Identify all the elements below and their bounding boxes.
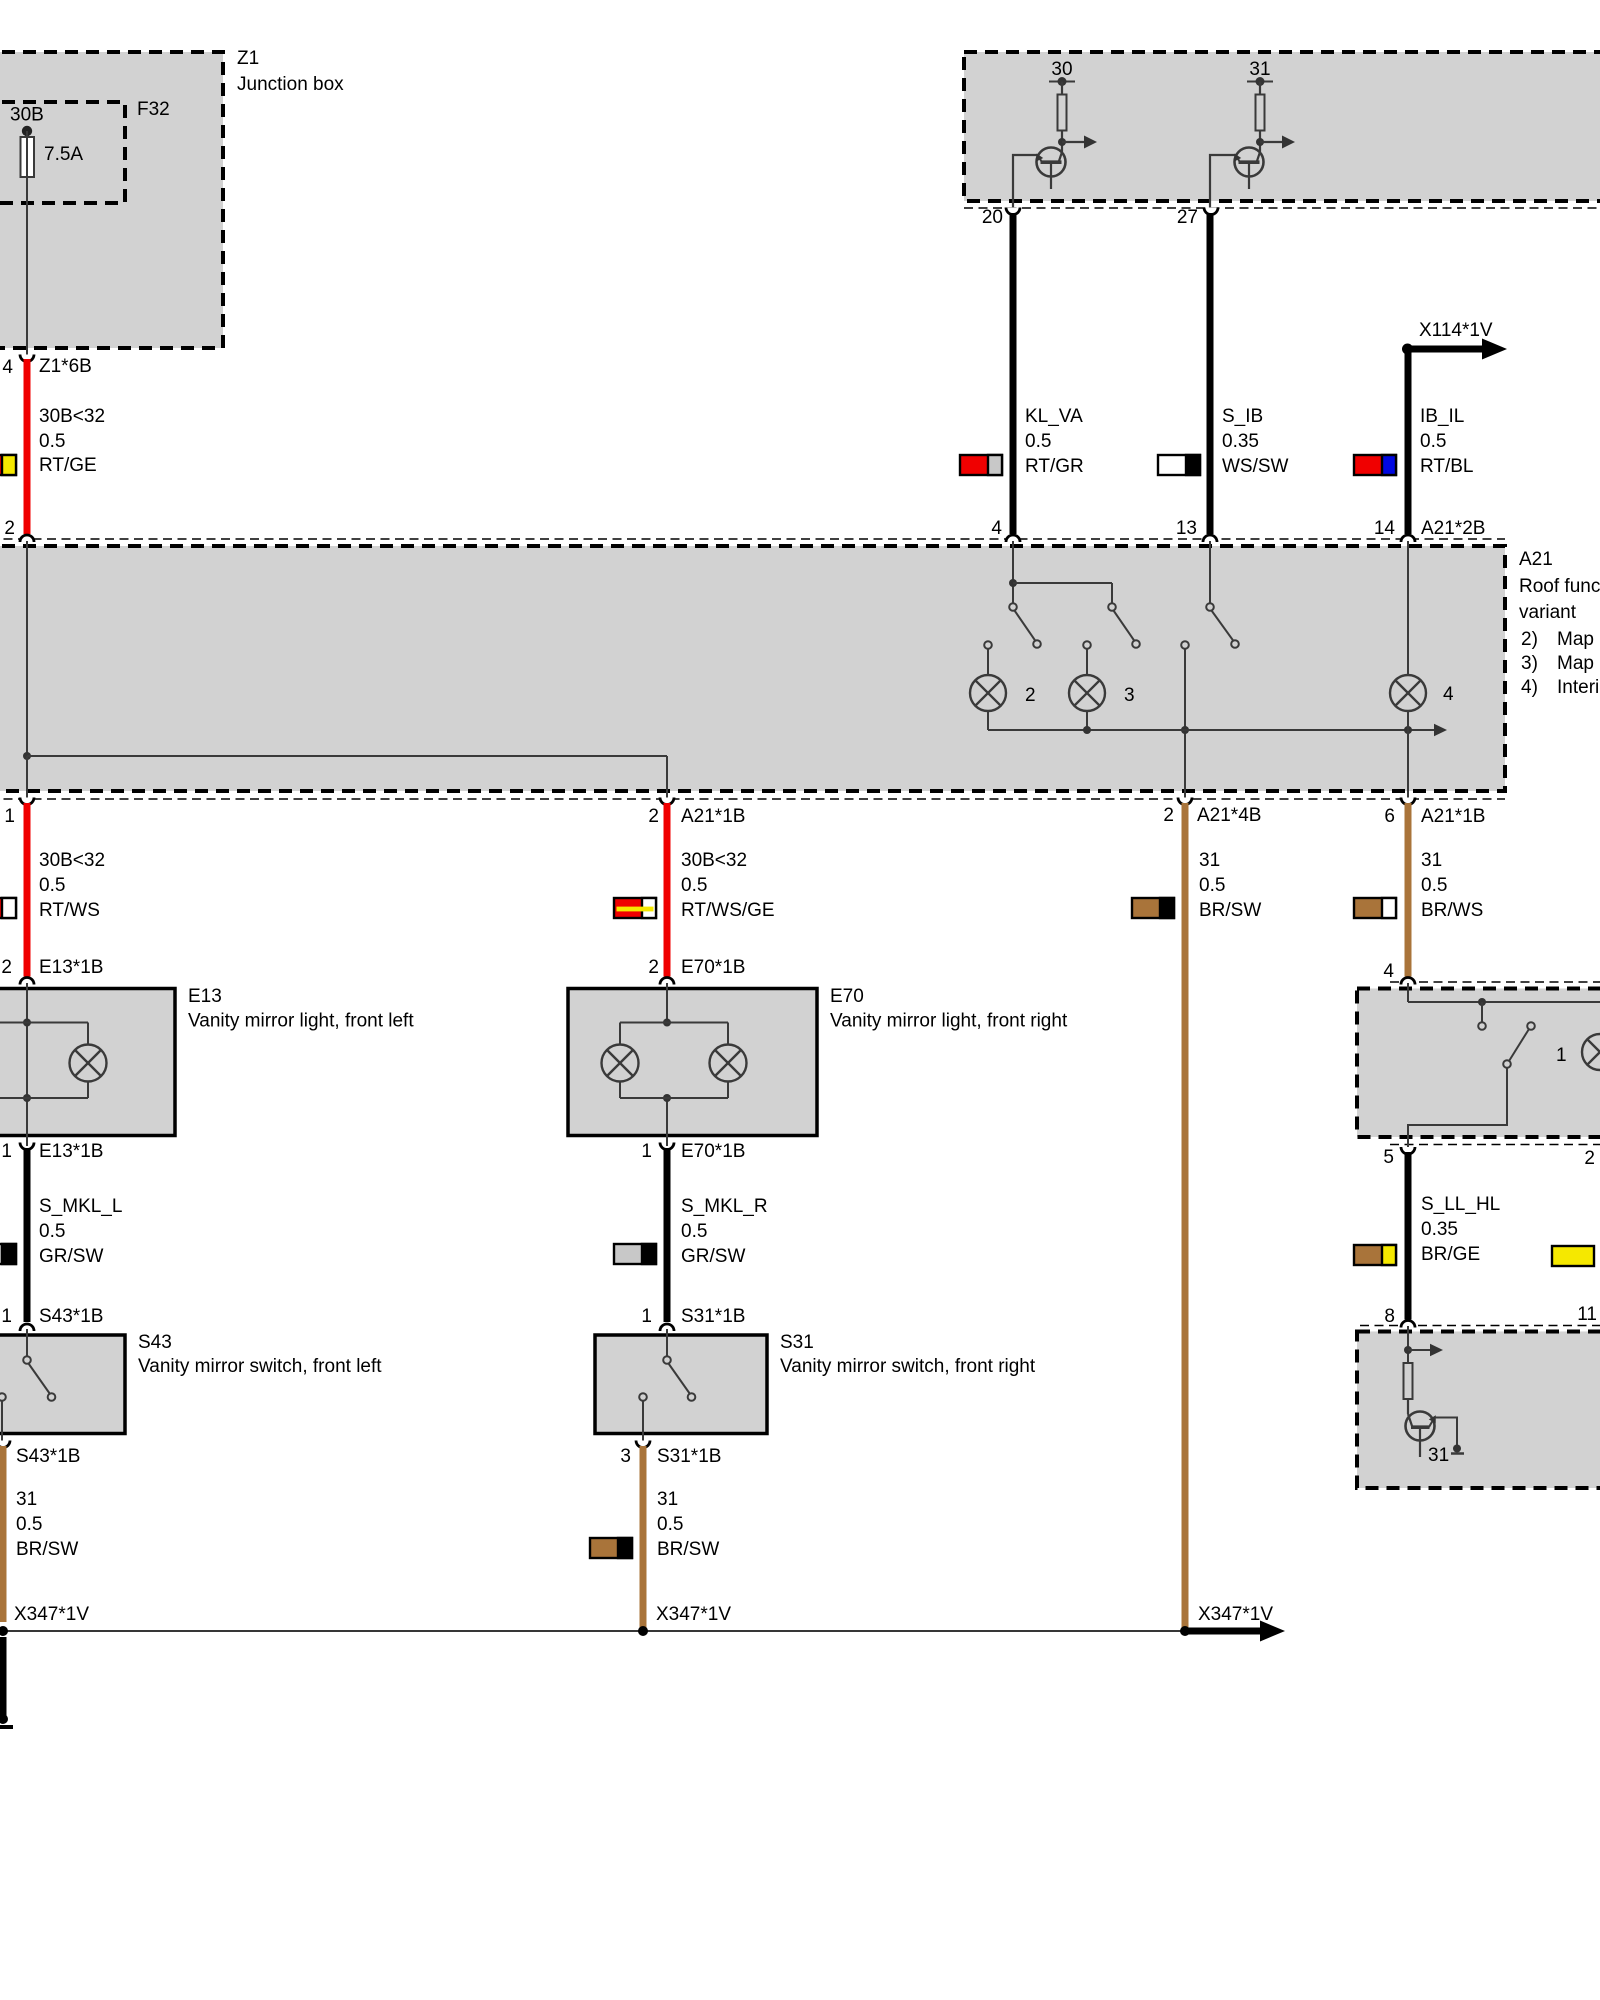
svg-text:A21*4B: A21*4B bbox=[1197, 805, 1261, 826]
pin 4 A21 top bbox=[991, 518, 1020, 542]
fuse box F32 bbox=[0, 99, 170, 203]
svg-text:E13*1B: E13*1B bbox=[39, 957, 103, 978]
pin 14 A21*2B bbox=[1374, 518, 1486, 542]
wire A21 pin4 feed bbox=[1009, 541, 1112, 603]
svg-text:4: 4 bbox=[2, 357, 13, 378]
colour swatch BR/GE bbox=[1354, 1245, 1396, 1265]
svg-text:20: 20 bbox=[982, 207, 1003, 228]
wire IB_IL RT/BL bbox=[1408, 352, 1474, 534]
svg-text:Vanity mirror light, front lef: Vanity mirror light, front left bbox=[188, 1011, 414, 1032]
wire base Q31 to pin 27 bbox=[1210, 155, 1235, 211]
svg-text:S43*1B: S43*1B bbox=[39, 1306, 103, 1327]
wire 31 BR/SW S43 to X347 bbox=[3, 1446, 78, 1622]
colour swatch RT/BL bbox=[1354, 455, 1396, 475]
lamp unit E13 box bbox=[0, 986, 414, 1136]
colour swatch RT/GE bbox=[0, 455, 16, 475]
svg-text:3: 3 bbox=[620, 1446, 631, 1467]
svg-text:GR/SW: GR/SW bbox=[681, 1246, 745, 1267]
svg-text:IB_IL: IB_IL bbox=[1420, 406, 1464, 427]
transistor Q30 bbox=[1036, 148, 1066, 190]
svg-text:7.5A: 7.5A bbox=[44, 144, 83, 165]
wire lamp bus with arrow bbox=[988, 711, 1447, 801]
svg-text:3: 3 bbox=[1124, 685, 1135, 706]
svg-text:1: 1 bbox=[1, 1141, 12, 1162]
switch for output A21*4B bbox=[1181, 603, 1239, 649]
wire 31 BR/SW S31 to X347 bbox=[643, 1446, 719, 1631]
svg-text:RT/WS: RT/WS bbox=[39, 900, 100, 921]
svg-text:2: 2 bbox=[1025, 685, 1036, 706]
node X347*1V middle bbox=[656, 1604, 731, 1625]
svg-text:0.35: 0.35 bbox=[1421, 1219, 1458, 1240]
pin 2 A21*4B bottom bbox=[1163, 798, 1261, 827]
node 30B bbox=[10, 105, 44, 137]
svg-text:Interior light: Interior light bbox=[1557, 677, 1600, 698]
svg-text:1: 1 bbox=[4, 806, 15, 827]
wire switch to lamp 2 bbox=[987, 649, 989, 675]
svg-text:0.5: 0.5 bbox=[39, 875, 65, 896]
node output arrow 30 bbox=[1058, 136, 1097, 149]
wire switch to pin A21*4B bbox=[1181, 649, 1189, 801]
net 30 bbox=[1049, 59, 1075, 95]
pin 4 Z1*6B bbox=[2, 355, 91, 379]
svg-text:2: 2 bbox=[1584, 1148, 1595, 1169]
svg-text:Vanity mirror light, front rig: Vanity mirror light, front right bbox=[830, 1011, 1068, 1032]
svg-text:BR/SW: BR/SW bbox=[16, 1539, 78, 1560]
wire 31 BR/WS bbox=[1408, 803, 1483, 977]
svg-text:X347*1V: X347*1V bbox=[14, 1604, 89, 1625]
rear lamp unit box right bbox=[1357, 989, 1600, 1138]
svg-text:RT/WS/GE: RT/WS/GE bbox=[681, 900, 775, 921]
colour swatch BR/SW bbox=[1132, 898, 1174, 918]
svg-text:S31*1B: S31*1B bbox=[681, 1306, 745, 1327]
svg-text:4: 4 bbox=[1383, 961, 1394, 982]
svg-text:0.5: 0.5 bbox=[39, 1221, 65, 1242]
pin 4 rear lamp unit top bbox=[1383, 961, 1415, 985]
rear lamp unit top connector row bbox=[1390, 981, 1600, 983]
wire S_MKL_L GR/SW bbox=[27, 1148, 122, 1322]
svg-text:4: 4 bbox=[1443, 684, 1454, 705]
pin 2 A21*1B bottom bbox=[648, 798, 745, 828]
A21 top connector row bbox=[0, 538, 1505, 540]
svg-text:1: 1 bbox=[641, 1141, 652, 1162]
svg-text:14: 14 bbox=[1374, 518, 1396, 539]
svg-text:2: 2 bbox=[1, 957, 12, 978]
svg-text:0.5: 0.5 bbox=[681, 1221, 707, 1242]
node X114*1V arrow bbox=[1402, 320, 1507, 360]
pin 2 rear connector bbox=[1584, 1148, 1595, 1169]
net 31 bbox=[1247, 59, 1273, 95]
node X347*1V arrow right bbox=[1185, 1604, 1285, 1642]
wire 31 BR/SW A21*4B to X347 bbox=[1185, 803, 1261, 1631]
wire 30B&lt;32 RT/WS/GE bbox=[667, 803, 775, 977]
svg-text:Z1: Z1 bbox=[237, 48, 259, 69]
A21 bottom connector row bbox=[0, 798, 1505, 800]
svg-text:KL_VA: KL_VA bbox=[1025, 406, 1083, 427]
svg-text:13: 13 bbox=[1176, 518, 1197, 539]
svg-text:3): 3) bbox=[1521, 653, 1538, 674]
svg-text:5: 5 bbox=[1383, 1147, 1394, 1168]
svg-text:8: 8 bbox=[1384, 1306, 1395, 1327]
svg-text:Vanity mirror switch, front ri: Vanity mirror switch, front right bbox=[780, 1356, 1036, 1377]
svg-text:S31: S31 bbox=[780, 1332, 814, 1353]
pin 8 rear ECU top bbox=[1384, 1306, 1415, 1328]
svg-text:Vanity mirror switch, front le: Vanity mirror switch, front left bbox=[138, 1356, 382, 1377]
svg-text:RT/GR: RT/GR bbox=[1025, 456, 1084, 477]
svg-text:E70: E70 bbox=[830, 986, 864, 1007]
lamp E13 bbox=[70, 1045, 107, 1082]
pin 2 A21 top left bbox=[4, 518, 34, 542]
colour swatch GR/SW right bbox=[614, 1244, 656, 1264]
svg-text:2: 2 bbox=[648, 806, 659, 827]
pin 6 A21*1B bottom bbox=[1384, 798, 1485, 828]
svg-text:0.5: 0.5 bbox=[39, 431, 65, 452]
wire A21 pin13 feed bbox=[1209, 541, 1211, 603]
svg-text:S43: S43 bbox=[138, 1332, 172, 1353]
svg-text:S_LL_HL: S_LL_HL bbox=[1421, 1194, 1500, 1215]
colour swatch WS/SW bbox=[1158, 455, 1200, 475]
wire S_LL_HL BR/GE bbox=[1408, 1152, 1500, 1320]
node output arrow 31 bbox=[1256, 136, 1295, 149]
svg-text:2): 2) bbox=[1521, 629, 1538, 650]
pin S43*1B bottom bbox=[0, 1441, 80, 1468]
resistor R30 bbox=[1058, 95, 1067, 153]
transistor rear ECU bbox=[1406, 1412, 1436, 1458]
pin 11 rear ECU top bbox=[1577, 1304, 1597, 1325]
svg-text:E70*1B: E70*1B bbox=[681, 957, 745, 978]
wire fuse feed bbox=[26, 131, 28, 358]
svg-text:BR/SW: BR/SW bbox=[657, 1539, 719, 1560]
svg-text:S_MKL_R: S_MKL_R bbox=[681, 1196, 768, 1217]
pin 20 bbox=[982, 207, 1020, 228]
ground bus X347*1V bbox=[0, 1626, 1190, 1636]
svg-text:S_IB: S_IB bbox=[1222, 406, 1263, 427]
svg-text:Roof function centre,: Roof function centre, bbox=[1519, 576, 1600, 597]
wire A21 pin14 to lamp 4 bbox=[1407, 541, 1409, 675]
svg-text:RT/BL: RT/BL bbox=[1420, 456, 1474, 477]
lamp E70 right bbox=[710, 1045, 747, 1082]
svg-text:variant: variant bbox=[1519, 602, 1577, 623]
svg-text:31: 31 bbox=[1428, 1445, 1449, 1466]
switch rear lamp unit bbox=[1478, 1022, 1535, 1068]
svg-text:RT/GE: RT/GE bbox=[39, 455, 97, 476]
colour swatch RT/GR bbox=[960, 455, 1002, 475]
svg-text:Z1*6B: Z1*6B bbox=[39, 356, 92, 377]
rear ECU box lower right bbox=[1357, 1332, 1600, 1489]
colour swatch BR/WS bbox=[1354, 898, 1396, 918]
pin 1 A21 bottom left bbox=[4, 798, 34, 828]
svg-text:4): 4) bbox=[1521, 677, 1538, 698]
ECU box top right (light module) bbox=[964, 52, 1600, 201]
wire S_IB WS/SW bbox=[1210, 213, 1289, 534]
svg-text:A21*1B: A21*1B bbox=[681, 806, 745, 827]
svg-text:30B<32: 30B<32 bbox=[681, 850, 747, 871]
svg-text:A21*2B: A21*2B bbox=[1421, 518, 1485, 539]
control unit A21 roof function centre box bbox=[0, 546, 1600, 791]
svg-text:S_MKL_L: S_MKL_L bbox=[39, 1196, 122, 1217]
lamp E70 left bbox=[602, 1045, 639, 1082]
svg-text:E13*1B: E13*1B bbox=[39, 1141, 103, 1162]
svg-text:Map reading light, right: Map reading light, right bbox=[1557, 653, 1600, 674]
svg-text:E70*1B: E70*1B bbox=[681, 1141, 745, 1162]
node X347*1V left bbox=[14, 1604, 89, 1625]
svg-text:2: 2 bbox=[4, 518, 15, 539]
colour swatch BR/SW S31 bbox=[590, 1538, 632, 1558]
ECU connector row bbox=[964, 207, 1600, 209]
colour swatch RT/WS bbox=[0, 898, 16, 918]
svg-text:BR/SW: BR/SW bbox=[1199, 900, 1261, 921]
pin 3 S31*1B bottom bbox=[620, 1441, 721, 1468]
wire rear ECU internal with arrow bbox=[1404, 1326, 1443, 1363]
svg-text:BR/GE: BR/GE bbox=[1421, 1244, 1480, 1265]
svg-text:0.5: 0.5 bbox=[657, 1514, 683, 1535]
svg-text:A21: A21 bbox=[1519, 549, 1553, 570]
svg-text:30B<32: 30B<32 bbox=[39, 406, 105, 427]
wire 30B&lt;32 RT/WS bbox=[27, 803, 105, 977]
switch S31 box bbox=[595, 1332, 1036, 1434]
svg-text:Map reading light, left: Map reading light, left bbox=[1557, 629, 1600, 650]
svg-text:1: 1 bbox=[1556, 1045, 1567, 1066]
svg-text:30B<32: 30B<32 bbox=[39, 850, 105, 871]
wire rear switch to pin 5 bbox=[1408, 1068, 1507, 1150]
svg-text:31: 31 bbox=[1421, 850, 1442, 871]
svg-text:2: 2 bbox=[648, 957, 659, 978]
pin 1 S43*1B top bbox=[1, 1306, 103, 1331]
ground stub bottom left bbox=[0, 1637, 13, 1727]
wire A21 pin2 to pin1/pin2 bbox=[23, 541, 667, 801]
svg-text:2: 2 bbox=[1163, 805, 1174, 826]
pin 1 E70*1B bottom bbox=[641, 1136, 745, 1163]
transistor Q31 bbox=[1234, 148, 1264, 190]
lamp 4 bbox=[1390, 675, 1454, 711]
switch S31 internal bbox=[639, 1329, 695, 1444]
svg-text:Junction box: Junction box bbox=[237, 74, 344, 95]
svg-text:1: 1 bbox=[641, 1306, 652, 1327]
svg-text:S43*1B: S43*1B bbox=[16, 1446, 80, 1467]
svg-text:BR/WS: BR/WS bbox=[1421, 900, 1483, 921]
svg-text:11: 11 bbox=[1577, 1304, 1597, 1325]
svg-text:0.5: 0.5 bbox=[1199, 875, 1225, 896]
svg-text:GR/SW: GR/SW bbox=[39, 1246, 103, 1267]
svg-text:30B: 30B bbox=[10, 105, 44, 126]
wire 30B&lt;32 RT/GE bbox=[27, 359, 105, 534]
svg-text:1: 1 bbox=[1, 1306, 12, 1327]
svg-text:31: 31 bbox=[16, 1489, 37, 1510]
pin 1 E13*1B bottom bbox=[1, 1136, 103, 1163]
svg-text:0.5: 0.5 bbox=[681, 875, 707, 896]
pin 5 rear lamp unit bottom bbox=[1383, 1147, 1415, 1168]
lamp 2 bbox=[970, 675, 1036, 711]
switch S43 box bbox=[0, 1332, 382, 1434]
svg-text:0.35: 0.35 bbox=[1222, 431, 1259, 452]
resistor rear ECU bbox=[1404, 1363, 1413, 1414]
junction box Z1 bbox=[0, 48, 344, 348]
switch S43 internal bbox=[0, 1329, 55, 1444]
colour swatch GR/SW left bbox=[0, 1244, 16, 1264]
svg-text:0.5: 0.5 bbox=[16, 1514, 42, 1535]
colour swatch RT/WS/GE bbox=[614, 898, 656, 918]
wire S_MKL_R GR/SW bbox=[667, 1148, 768, 1322]
svg-text:WS/SW: WS/SW bbox=[1222, 456, 1289, 477]
lamp 1 rear bbox=[1556, 1034, 1600, 1070]
svg-text:X347*1V: X347*1V bbox=[656, 1604, 731, 1625]
rear lamp unit bottom connector row bbox=[1390, 1144, 1600, 1146]
wire E70 internal bbox=[620, 983, 728, 1136]
lamp 3 bbox=[1069, 675, 1135, 711]
pin 27 bbox=[1177, 207, 1218, 228]
svg-text:0.5: 0.5 bbox=[1421, 875, 1447, 896]
wire E13 internal bbox=[0, 983, 88, 1136]
pin 2 E70*1B top bbox=[648, 957, 745, 985]
wire KL_VA RT/GR bbox=[1013, 213, 1084, 534]
switch for lamp 2 bbox=[984, 603, 1041, 649]
wire base Q30 to pin 20 bbox=[1013, 155, 1037, 211]
svg-text:6: 6 bbox=[1384, 806, 1395, 827]
svg-text:F32: F32 bbox=[137, 99, 170, 120]
wire emitter to terminal 31 bbox=[1435, 1418, 1458, 1446]
fuse F32 7.5A bbox=[21, 137, 84, 177]
svg-text:E13: E13 bbox=[188, 986, 222, 1007]
lamp unit E70 box bbox=[568, 986, 1068, 1136]
svg-text:X114*1V: X114*1V bbox=[1419, 320, 1493, 341]
pin 13 A21 top bbox=[1176, 518, 1217, 542]
terminal 31 symbol bbox=[1428, 1445, 1464, 1467]
switch for lamp 3 bbox=[1083, 603, 1140, 649]
pin 2 E13*1B top bbox=[1, 957, 103, 985]
svg-text:31: 31 bbox=[1249, 59, 1270, 80]
svg-text:30: 30 bbox=[1051, 59, 1072, 80]
svg-text:4: 4 bbox=[991, 518, 1002, 539]
svg-text:0.5: 0.5 bbox=[1420, 431, 1446, 452]
svg-text:S31*1B: S31*1B bbox=[657, 1446, 721, 1467]
resistor R31 bbox=[1256, 95, 1265, 153]
rear ECU top connector row bbox=[1360, 1325, 1600, 1327]
colour swatch GE bbox=[1552, 1246, 1594, 1266]
svg-text:27: 27 bbox=[1177, 207, 1198, 228]
svg-text:31: 31 bbox=[657, 1489, 678, 1510]
svg-text:0.5: 0.5 bbox=[1025, 431, 1051, 452]
wire rear lamp unit internal bbox=[1408, 983, 1600, 1022]
svg-text:A21*1B: A21*1B bbox=[1421, 806, 1485, 827]
wire switch to lamp 3 bbox=[1086, 649, 1088, 675]
pin 1 S31*1B top bbox=[641, 1306, 745, 1331]
svg-text:31: 31 bbox=[1199, 850, 1220, 871]
